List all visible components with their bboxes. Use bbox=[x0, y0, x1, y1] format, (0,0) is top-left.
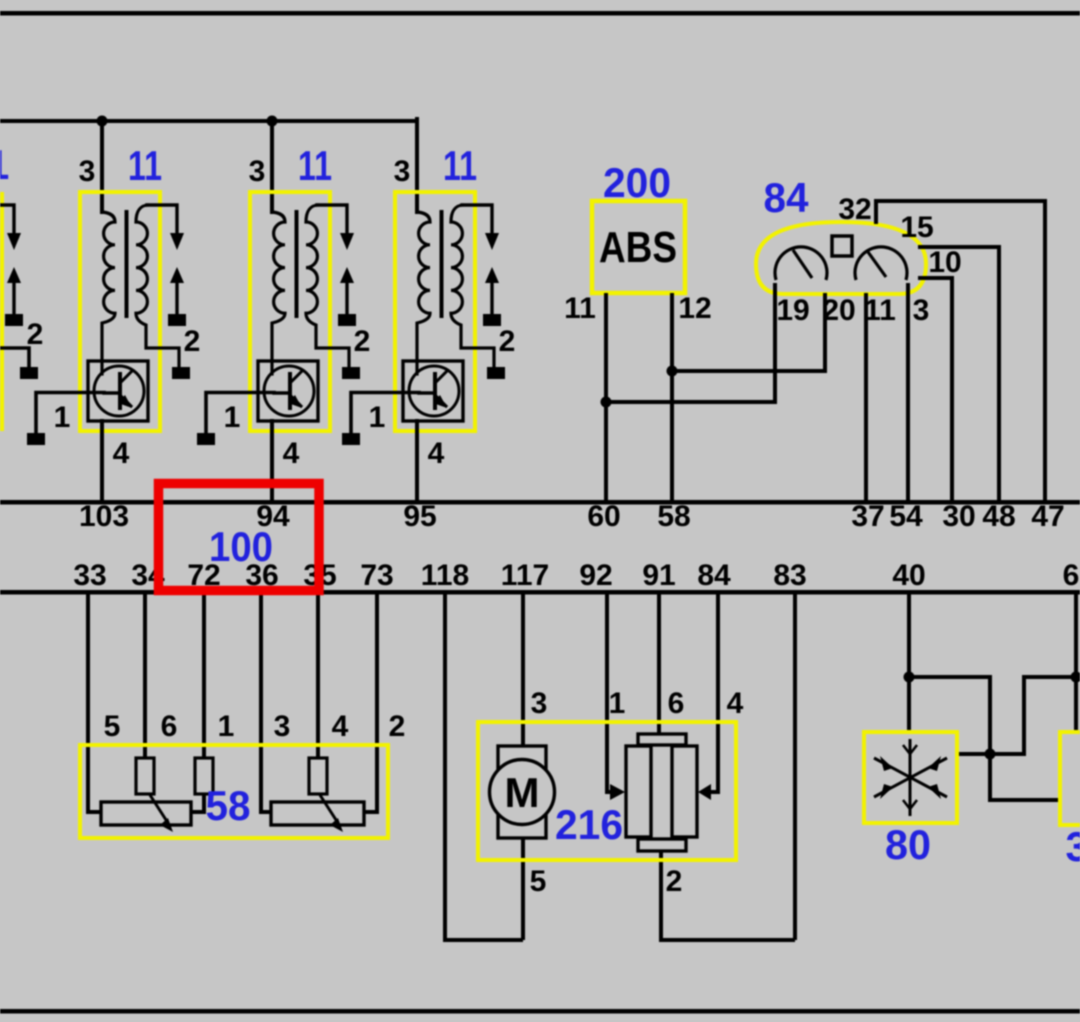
svg-text:1: 1 bbox=[218, 710, 235, 743]
junction node unit2 bbox=[267, 116, 278, 127]
pin 3 wire to terminal 54 bbox=[906, 283, 910, 502]
svg-text:103: 103 bbox=[79, 500, 129, 533]
wire 6 bbox=[1074, 594, 1078, 732]
svg-text:37: 37 bbox=[851, 500, 884, 533]
svg-text:84: 84 bbox=[764, 174, 810, 221]
wire 35 bbox=[316, 594, 320, 758]
svg-text:19: 19 bbox=[776, 294, 809, 327]
svg-text:84: 84 bbox=[697, 559, 731, 592]
wiper resistor c bbox=[309, 758, 327, 794]
svg-text:1: 1 bbox=[609, 687, 626, 720]
partial yellow box edge bbox=[0, 192, 4, 431]
AC unit 80: wire 40 bbox=[907, 594, 911, 732]
snowflake vertical bbox=[909, 739, 912, 816]
pin 10 wire to terminal 30 bbox=[918, 278, 952, 502]
throttle sensor 58: wire 33 bbox=[88, 594, 101, 812]
snowflake diag 2 bbox=[874, 758, 947, 797]
partial spark gap lower wire bbox=[12, 282, 15, 314]
svg-text:58: 58 bbox=[206, 782, 251, 829]
sensor yellow box bbox=[80, 745, 388, 838]
highlight red rectangle bbox=[159, 484, 320, 591]
motor pin5 wire bbox=[521, 838, 525, 940]
partial spark gap wire bbox=[0, 205, 14, 233]
snowflake diag 1 bbox=[874, 758, 947, 797]
top border line bbox=[0, 11, 1080, 16]
pin 20 wire bbox=[672, 293, 825, 371]
pin 32 wire to terminal 47 bbox=[876, 201, 1045, 502]
wire 91 bbox=[657, 594, 661, 734]
partial spark gap terminal bbox=[5, 314, 23, 326]
right gauge bbox=[855, 247, 907, 280]
svg-text:10: 10 bbox=[928, 246, 961, 279]
valve bottom cap bbox=[638, 839, 686, 851]
svg-text:5: 5 bbox=[104, 710, 121, 743]
svg-text:4: 4 bbox=[727, 687, 744, 720]
svg-text:6: 6 bbox=[668, 687, 685, 720]
snowflake arrow d bbox=[928, 784, 941, 799]
snowflake chevron bottom bbox=[903, 800, 917, 809]
junction node unit1 bbox=[97, 116, 108, 127]
svg-text:5: 5 bbox=[530, 865, 547, 898]
junction on wire 58 bbox=[667, 366, 678, 377]
wire 40 branch bbox=[909, 677, 1060, 800]
svg-text:15: 15 bbox=[900, 211, 933, 244]
left gauge needle bbox=[793, 250, 812, 278]
svg-text:32: 32 bbox=[838, 193, 871, 226]
partial spark gap arrow up bbox=[7, 267, 21, 283]
bottom border line bbox=[0, 1009, 1080, 1014]
snowflake arrow a bbox=[880, 756, 893, 771]
ignition coil 11 (unit 1) bbox=[27, 119, 200, 502]
svg-text:95: 95 bbox=[403, 500, 436, 533]
svg-text:80: 80 bbox=[885, 821, 931, 868]
svg-text:3: 3 bbox=[913, 294, 930, 327]
wiper arrow a bbox=[160, 818, 173, 832]
svg-text:6: 6 bbox=[161, 710, 178, 743]
wiper resistor a bbox=[136, 758, 154, 794]
svg-text:3: 3 bbox=[1066, 823, 1080, 870]
snowflake arrow b bbox=[928, 756, 941, 771]
snowflake arrow c bbox=[880, 784, 893, 799]
top feed wire bbox=[0, 121, 417, 212]
svg-text:2: 2 bbox=[389, 710, 406, 743]
ignition coil 11 (unit 3) bbox=[342, 119, 515, 502]
svg-text:118: 118 bbox=[421, 559, 469, 592]
svg-text:83: 83 bbox=[773, 559, 806, 592]
partial pin 2 wire bbox=[0, 348, 29, 368]
ignition coil 11 (unit 2) bbox=[197, 119, 370, 502]
svg-text:3: 3 bbox=[531, 687, 548, 720]
right gauge needle bbox=[868, 252, 886, 277]
valve left arrow bbox=[610, 784, 625, 800]
svg-text:33: 33 bbox=[73, 559, 106, 592]
svg-text:ABS: ABS bbox=[599, 223, 677, 272]
wire 36 bbox=[261, 594, 271, 812]
wiper arm a bbox=[150, 795, 168, 823]
ABS pin 12 wire bbox=[670, 293, 674, 502]
svg-text:1: 1 bbox=[0, 141, 9, 188]
valve top cap bbox=[638, 734, 686, 745]
left gauge bbox=[775, 247, 827, 280]
pin 15 wire to terminal 48 bbox=[918, 247, 999, 502]
svg-text:216: 216 bbox=[555, 801, 623, 848]
svg-text:2: 2 bbox=[666, 865, 683, 898]
valve yellow box bbox=[478, 722, 736, 860]
idle valve 216: wire 118 bbox=[445, 594, 523, 940]
valve pin2 wire bbox=[661, 851, 795, 940]
svg-text:47: 47 bbox=[1031, 500, 1064, 533]
track resistor 2 bbox=[271, 802, 364, 825]
track resistor 1 bbox=[101, 802, 191, 825]
wire 34 bbox=[143, 594, 147, 758]
svg-text:11: 11 bbox=[864, 294, 896, 327]
AC switch wire bbox=[957, 677, 1076, 754]
wire 72 bbox=[191, 594, 204, 812]
svg-text:73: 73 bbox=[360, 559, 393, 592]
svg-text:48: 48 bbox=[982, 500, 1015, 533]
svg-text:6: 6 bbox=[1063, 559, 1080, 592]
wire 92 with arrow bbox=[607, 594, 613, 792]
wire 84 with arrow bbox=[711, 594, 718, 792]
wire 117 bbox=[521, 594, 525, 746]
svg-text:4: 4 bbox=[332, 710, 349, 743]
valve right arrow bbox=[698, 784, 711, 800]
cluster square indicator bbox=[832, 236, 852, 256]
svg-text:11: 11 bbox=[564, 292, 596, 325]
AC yellow box bbox=[864, 732, 957, 823]
ignition coil 11 (partial left unit) bbox=[0, 141, 43, 431]
partial pin 2 terminal bbox=[20, 367, 38, 379]
wire 73 bbox=[364, 594, 377, 812]
svg-text:91: 91 bbox=[642, 559, 675, 592]
bus bar upper bbox=[0, 500, 1080, 505]
svg-text:30: 30 bbox=[942, 500, 975, 533]
motor body bbox=[498, 746, 546, 838]
bus bar lower bbox=[0, 590, 1080, 595]
svg-text:12: 12 bbox=[678, 292, 711, 325]
svg-text:M: M bbox=[505, 769, 540, 816]
junction node bbox=[985, 749, 996, 760]
snowflake chevron top bbox=[903, 745, 917, 754]
svg-text:2: 2 bbox=[27, 318, 44, 351]
ABS pin 11 wire bbox=[604, 293, 608, 502]
ABS yellow box bbox=[592, 201, 685, 293]
pin 11 wire to terminal 37 bbox=[864, 293, 868, 502]
svg-text:20: 20 bbox=[822, 294, 855, 327]
svg-text:60: 60 bbox=[587, 500, 620, 533]
junction node right bbox=[1071, 672, 1080, 683]
svg-text:54: 54 bbox=[889, 500, 923, 533]
wiper arm c bbox=[320, 795, 338, 823]
series resistor b bbox=[195, 758, 213, 794]
svg-text:117: 117 bbox=[501, 559, 549, 592]
svg-text:3: 3 bbox=[274, 710, 291, 743]
junction on wire 60 bbox=[601, 397, 612, 408]
right edge yellow box bbox=[1060, 732, 1080, 825]
partial spark gap arrow down bbox=[7, 233, 21, 250]
valve left cylinder bbox=[626, 746, 651, 837]
junction on wire 40 bbox=[904, 672, 915, 683]
wire 83 bbox=[793, 594, 797, 940]
cluster yellow outline bbox=[756, 222, 926, 294]
svg-text:40: 40 bbox=[892, 559, 925, 592]
svg-text:92: 92 bbox=[579, 559, 612, 592]
motor circle bbox=[490, 760, 555, 825]
pin 19 wire bbox=[606, 283, 775, 402]
wiper arrow c bbox=[330, 818, 343, 832]
valve right cylinder bbox=[672, 746, 697, 837]
svg-text:58: 58 bbox=[657, 500, 690, 533]
